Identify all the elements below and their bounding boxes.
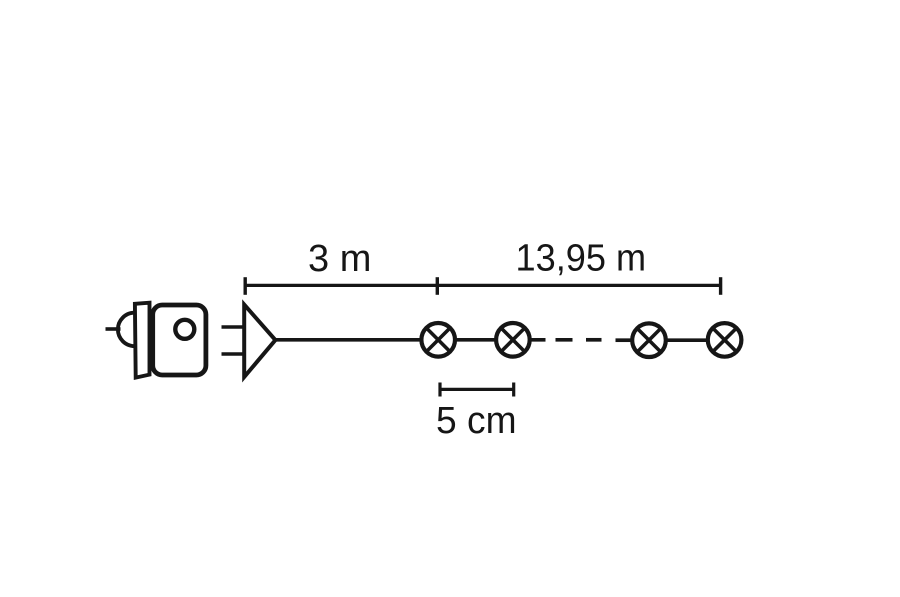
dimension tick middle <box>436 277 439 295</box>
svg-text:13,95 m: 13,95 m <box>516 237 647 279</box>
plug connector triangle <box>244 305 275 377</box>
lamp L4 <box>708 323 742 357</box>
lamp L1 <box>421 323 455 357</box>
lamp L3 <box>632 323 666 357</box>
dimension line 5 cm <box>440 388 514 391</box>
power adapter dome (left bulb of adapter) <box>118 313 135 346</box>
dimension tick right <box>719 277 722 295</box>
power adapter rear band <box>135 303 150 378</box>
dashed wire (continuation) <box>556 338 573 342</box>
5 cm tick right <box>512 383 515 397</box>
dimension tick left <box>243 277 246 295</box>
indicator circle on adapter body <box>175 320 194 339</box>
wire between lamp 3 and lamp 4 <box>630 338 707 342</box>
lamp L2 <box>496 323 530 357</box>
svg-text:3 m: 3 m <box>308 238 371 280</box>
plug prong lower <box>222 352 247 356</box>
lead wire from plug to first lamp and lamp chain <box>275 338 546 342</box>
svg-text:5 cm: 5 cm <box>436 400 517 442</box>
power adapter input stub wire <box>106 327 121 331</box>
power adapter body <box>153 305 206 375</box>
5 cm tick left <box>438 383 441 397</box>
dimension line (3 m + 13,95 m) <box>245 284 720 287</box>
plug prong upper <box>222 325 247 329</box>
